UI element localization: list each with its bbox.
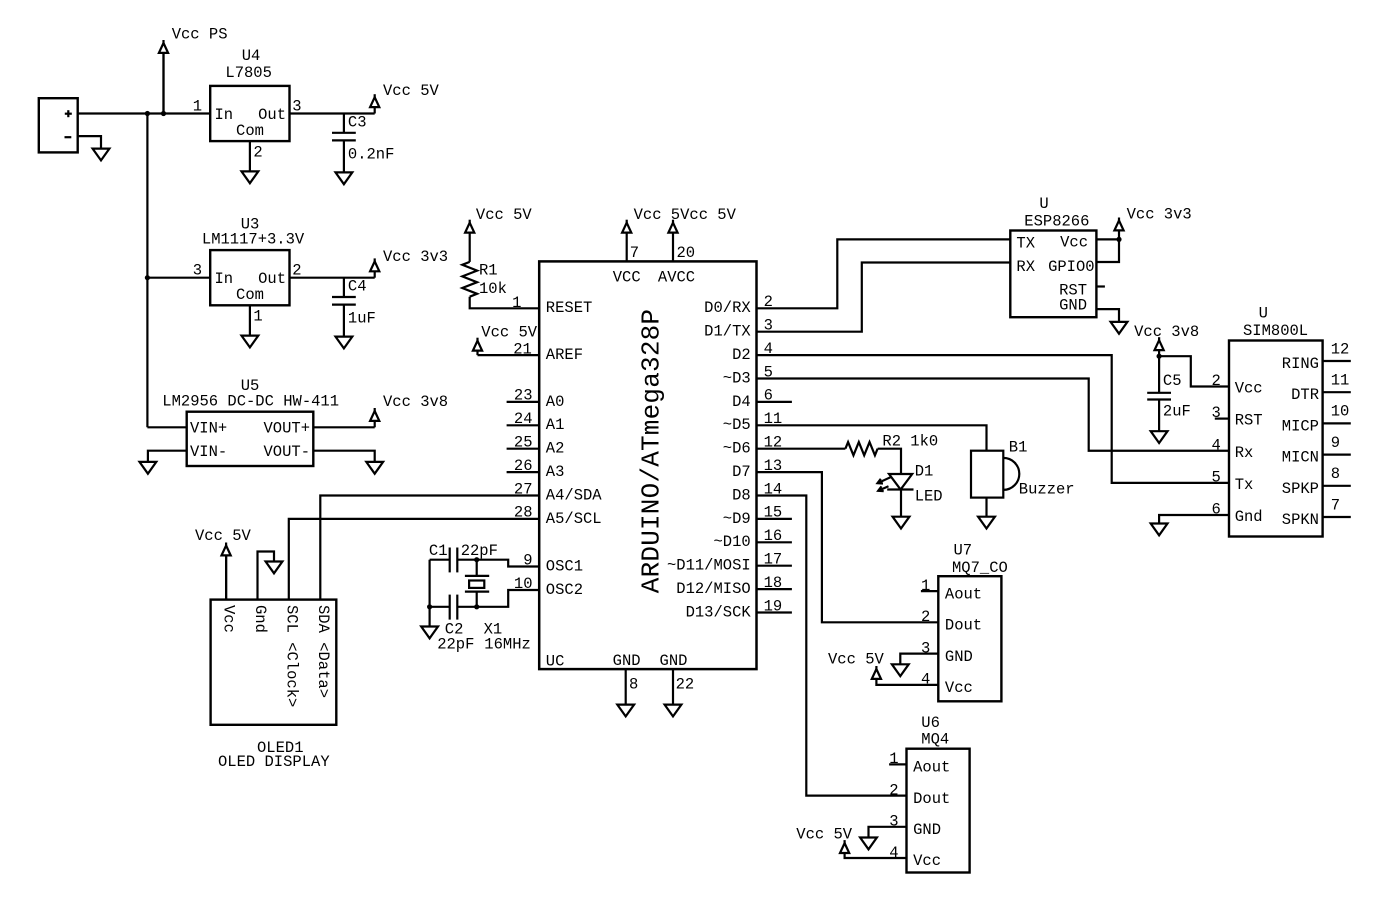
svg-text:A1: A1	[546, 416, 565, 434]
svg-text:GND: GND	[660, 652, 688, 670]
capacitor C4	[332, 278, 356, 337]
label U SIM800L	[1243, 305, 1308, 341]
capacitor C5	[1147, 356, 1171, 431]
svg-text:OSC1: OSC1	[546, 557, 583, 575]
dc-dc converter U5 box	[187, 412, 314, 466]
U6 Aout stub	[889, 763, 906, 765]
svg-text:In: In	[215, 270, 234, 288]
label C5 2uF	[1163, 372, 1191, 420]
svg-text:U: U	[1039, 195, 1048, 213]
svg-text:LM1117+3.3V: LM1117+3.3V	[202, 231, 305, 249]
wire D2 to SIM800L Tx	[757, 355, 1230, 483]
ground C3	[336, 172, 353, 184]
pin numbers 7 20	[630, 244, 695, 262]
svg-text:Vcc 5V: Vcc 5V	[476, 206, 533, 224]
ground U5 VOUT-	[366, 462, 383, 474]
U6 pin numbers	[889, 750, 898, 862]
crystal X1	[465, 560, 489, 607]
svg-text:MQ7_CO: MQ7_CO	[952, 559, 1008, 577]
wire crystal left rail	[429, 560, 431, 627]
gas sensor U6 box	[907, 749, 970, 873]
label Vcc 5V OLED	[195, 527, 252, 545]
label D1 LED	[915, 462, 943, 505]
label C4 1uF	[348, 278, 376, 328]
svg-text:Com: Com	[236, 286, 264, 304]
svg-text:~D11/MOSI: ~D11/MOSI	[667, 557, 751, 575]
svg-text:Vcc PS: Vcc PS	[172, 25, 228, 43]
wire U6 Vcc + Vcc symbol	[840, 840, 907, 858]
svg-text:U: U	[1259, 305, 1268, 323]
wire OLED SCL to A5/SCL	[289, 519, 539, 600]
svg-text:VIN-: VIN-	[190, 443, 227, 461]
label X1 16MHz	[484, 620, 531, 653]
capacitor C2	[430, 595, 477, 620]
ESP RST stub	[1096, 285, 1105, 287]
svg-text:Vcc 5V: Vcc 5V	[383, 82, 440, 100]
svg-text:Buzzer: Buzzer	[1019, 480, 1075, 498]
gas sensor U7 box	[938, 576, 1001, 701]
svg-text:D7: D7	[732, 463, 751, 481]
ground pin 22	[665, 705, 682, 717]
svg-text:Aout: Aout	[913, 759, 950, 777]
svg-text:D13/SCK: D13/SCK	[686, 603, 752, 621]
svg-text:SPKP: SPKP	[1282, 480, 1319, 498]
U7 pin names	[945, 585, 982, 697]
svg-text:0.2nF: 0.2nF	[348, 145, 395, 163]
label C2 22pF	[437, 620, 474, 653]
svg-text:SIM800L: SIM800L	[1243, 322, 1308, 340]
wire U5 VIN- to ground	[148, 451, 187, 462]
label U7 MQ7_CO	[952, 541, 1008, 577]
wire U7 Vcc + Vcc symbol	[872, 666, 939, 685]
battery polarity marks	[65, 110, 72, 137]
svg-text:Vcc 3v8: Vcc 3v8	[383, 393, 448, 411]
wire OLED SDA to A4/SDA	[320, 496, 539, 600]
OLED display box	[211, 600, 337, 725]
node crystal junctions	[427, 557, 479, 609]
svg-text:AREF: AREF	[546, 346, 583, 364]
svg-text:VOUT+: VOUT+	[263, 420, 310, 438]
svg-text:21: 21	[513, 340, 532, 358]
battery power source	[39, 98, 78, 152]
svg-text:Dout: Dout	[945, 617, 982, 635]
wire ~D3 to SIM800L Rx	[757, 379, 1230, 451]
SIM800L right stubs	[1323, 361, 1351, 517]
svg-text:U7: U7	[954, 541, 973, 559]
svg-text:TX: TX	[1016, 235, 1035, 253]
svg-text:R1: R1	[479, 262, 498, 280]
wire SIM800L Vcc net + node	[1157, 354, 1230, 387]
svg-text:7: 7	[1331, 496, 1340, 514]
ground U6	[860, 838, 877, 850]
svg-text:Dout: Dout	[913, 790, 950, 808]
label R2 1k0	[882, 432, 938, 450]
U4 pin numbers	[193, 98, 302, 162]
wifi module U ESP8266 box	[1010, 231, 1096, 318]
SIM800L left pin names	[1235, 380, 1263, 527]
svg-text:RX: RX	[1016, 258, 1035, 276]
svg-text:Vcc 5V: Vcc 5V	[481, 324, 538, 342]
label U ESP8266	[1024, 195, 1089, 230]
wire GND pin 8	[625, 669, 627, 705]
label Vcc 3v8 SIM	[1134, 323, 1199, 341]
wire U4 Out / Vcc 5V net	[290, 112, 375, 114]
svg-text:RESET: RESET	[546, 299, 593, 317]
Vcc 5V symbol and wire to AREF	[473, 338, 539, 355]
U4 pin names	[215, 106, 287, 140]
wire main input vertical	[146, 114, 148, 428]
ATmega left pin numbers	[514, 387, 533, 593]
U7 pin numbers	[921, 577, 930, 689]
svg-text:8: 8	[629, 675, 638, 693]
svg-text:L7805: L7805	[225, 64, 272, 82]
svg-text:C4: C4	[348, 278, 367, 296]
wire U3 Com to ground	[249, 305, 251, 335]
svg-text:1: 1	[921, 577, 930, 595]
svg-text:DTR: DTR	[1291, 386, 1319, 404]
svg-text:SDA <Data>: SDA <Data>	[314, 605, 332, 698]
U5 pin names	[190, 420, 310, 461]
U7 Aout stub	[921, 590, 938, 592]
svg-text:B1: B1	[1009, 438, 1028, 456]
svg-text:UC: UC	[546, 652, 565, 670]
svg-text:Vcc: Vcc	[1060, 234, 1088, 252]
label Vcc 3v8	[383, 393, 448, 411]
svg-text:MICP: MICP	[1282, 417, 1319, 435]
wire crystal to OSC1	[477, 560, 540, 567]
svg-text:D4: D4	[732, 393, 751, 411]
Vcc 3v3 symbol	[370, 258, 379, 277]
wire ESP GND	[1096, 309, 1119, 322]
ground LED	[893, 517, 910, 529]
svg-text:Com: Com	[236, 122, 264, 140]
svg-text:9: 9	[1331, 434, 1340, 452]
svg-text:D2: D2	[732, 346, 751, 364]
Vcc 3v3 symbol at ESP	[1114, 218, 1123, 240]
svg-text:Vcc 3v3: Vcc 3v3	[383, 248, 448, 266]
Vcc 5V symbol at OLED	[222, 543, 231, 600]
wire SIM800L Gnd	[1159, 515, 1229, 524]
wire ESP Vcc + node	[1096, 237, 1121, 242]
regulator U3 box	[210, 250, 289, 305]
U3 pin names	[215, 270, 287, 304]
wire D1/TX to ESP RX	[757, 263, 1011, 332]
ground SIM800L Gnd	[1151, 524, 1168, 536]
Vcc PS symbol	[159, 40, 168, 114]
ground U5 VIN-	[140, 462, 157, 474]
svg-text:VOUT-: VOUT-	[263, 443, 310, 461]
svg-text:1: 1	[253, 308, 262, 326]
wire U4 Com to ground	[249, 141, 251, 171]
svg-text:LED: LED	[915, 487, 943, 505]
svg-text:GND: GND	[613, 652, 641, 670]
svg-text:C5: C5	[1163, 372, 1182, 390]
wire battery- to ground	[78, 136, 101, 149]
OLED pin names (rotated)	[220, 605, 332, 707]
ground ESP GND	[1111, 322, 1128, 334]
svg-text:D8: D8	[732, 486, 751, 504]
svg-text:12: 12	[1331, 340, 1350, 358]
svg-text:U6: U6	[921, 714, 940, 732]
label Vcc 5V	[383, 82, 440, 100]
SIM800L right pin names	[1282, 355, 1319, 529]
label B1 Buzzer	[1009, 438, 1075, 498]
svg-text:Vcc: Vcc	[945, 679, 973, 697]
svg-text:ESP8266: ESP8266	[1024, 212, 1089, 230]
svg-text:OSC2: OSC2	[546, 581, 583, 599]
ATmega VCC AVCC GND names	[613, 269, 695, 670]
svg-text:MQ4: MQ4	[921, 730, 949, 748]
svg-text:Vcc 5V: Vcc 5V	[796, 826, 853, 844]
svg-text:VIN+: VIN+	[190, 420, 227, 438]
svg-text:22pF: 22pF	[461, 542, 498, 560]
ground battery-	[93, 149, 110, 161]
ground U3 Com	[242, 336, 259, 348]
svg-text:Vcc 5Vcc 5V: Vcc 5Vcc 5V	[634, 206, 737, 224]
Vcc 5V symbol pin 7 VCC	[622, 220, 631, 262]
svg-text:1: 1	[193, 98, 202, 116]
wire ESP GPIO0 to Vcc	[1096, 239, 1119, 262]
svg-text:SPKN: SPKN	[1282, 511, 1319, 529]
Vcc 5V symbol at U4 out	[370, 94, 379, 113]
wire battery+ to U4 In	[78, 112, 211, 114]
svg-text:Vcc 5V: Vcc 5V	[828, 651, 885, 669]
svg-text:2: 2	[253, 143, 262, 161]
ground U4 Com	[242, 171, 259, 183]
ground crystal rail	[421, 627, 438, 639]
svg-text:A2: A2	[546, 440, 565, 458]
U6 pin names	[913, 759, 950, 871]
svg-text:Tx: Tx	[1235, 476, 1254, 494]
label U3 LM1117+3.3V	[202, 216, 305, 249]
regulator U4 box	[210, 86, 289, 141]
label Vcc 5V R1	[476, 206, 533, 224]
Vcc 5V symbol pin 20 AVCC	[668, 220, 677, 262]
label Vcc 5V U6	[796, 826, 853, 844]
ground OLED Gnd	[266, 562, 283, 574]
Vcc 3v8 symbol at SIM800L	[1155, 337, 1164, 356]
svg-text:22: 22	[676, 675, 695, 693]
pin numbers 8 22	[629, 675, 694, 693]
ESP8266 left pin names	[1016, 235, 1035, 277]
pin number 1 RESET	[512, 294, 521, 312]
svg-text:GPIO0: GPIO0	[1048, 258, 1095, 276]
MCU U ARDUINO/ATmega328P box	[539, 261, 756, 669]
pin number 21 AREF	[513, 340, 532, 358]
wire U5 VOUT- to ground	[313, 451, 374, 462]
U3 pin numbers	[193, 262, 302, 326]
svg-text:Vcc 5V: Vcc 5V	[195, 527, 252, 545]
wire LED to ground	[900, 490, 902, 517]
node junction battery+ / PS	[145, 111, 166, 116]
wire to U5 VIN+	[147, 426, 186, 428]
svg-text:SCL <Clock>: SCL <Clock>	[282, 605, 300, 707]
SIM800L left pin numbers	[1212, 372, 1221, 518]
wire D0/RX to ESP TX	[757, 239, 1011, 308]
svg-text:Aout: Aout	[945, 585, 982, 603]
svg-text:10k: 10k	[479, 280, 507, 298]
svg-text:Vcc: Vcc	[220, 605, 238, 633]
ground U7	[892, 664, 909, 676]
SIM800L RST stub	[1215, 418, 1229, 420]
svg-text:VCC: VCC	[613, 269, 641, 287]
svg-text:2uF: 2uF	[1163, 402, 1191, 420]
wire U7 GND	[900, 654, 938, 665]
label R1 10k	[479, 262, 507, 299]
svg-text:8: 8	[1331, 465, 1340, 483]
labels Vcc 5V Vcc 5V overlapping	[634, 206, 737, 224]
svg-text:D12/MISO: D12/MISO	[676, 580, 750, 598]
label Vcc 3v3 ESP	[1127, 205, 1192, 223]
svg-text:22pF: 22pF	[437, 636, 474, 654]
svg-text:C3: C3	[348, 113, 367, 131]
svg-text:20: 20	[677, 244, 696, 262]
wire D7 to U7 Dout	[757, 472, 939, 622]
Vcc 3v8 symbol at U5	[370, 408, 379, 427]
svg-text:Gnd: Gnd	[251, 605, 269, 633]
resistor R1	[462, 262, 477, 297]
label C3 0.2nF	[348, 113, 395, 163]
wire GND pin 22	[672, 669, 674, 705]
svg-text:D0/RX: D0/RX	[704, 299, 751, 317]
ATmega A0-A3 stubs	[507, 402, 540, 472]
svg-text:2: 2	[889, 781, 898, 799]
label U6 MQ4	[921, 714, 949, 748]
label C1 22pF	[429, 542, 498, 560]
ground buzzer	[978, 517, 995, 529]
resistor R2	[845, 442, 877, 455]
ground pin 8	[617, 705, 634, 717]
svg-text:ARDUINO/ATmega328P: ARDUINO/ATmega328P	[637, 309, 667, 593]
label Vcc 5V U7	[828, 651, 885, 669]
node junction U3 In tap	[145, 275, 210, 280]
svg-text:3: 3	[921, 639, 930, 657]
svg-text:A4/SDA: A4/SDA	[546, 486, 603, 504]
svg-text:D1/TX: D1/TX	[704, 323, 751, 341]
svg-text:A3: A3	[546, 463, 565, 481]
capacitor C1	[430, 548, 477, 573]
svg-text:1: 1	[512, 294, 521, 312]
ground C5	[1151, 431, 1168, 443]
wire U6 GND	[869, 827, 907, 838]
Vcc 5V symbol at R1	[465, 220, 474, 262]
label ARDUINO/ATmega328P	[637, 309, 667, 593]
label Vcc 5V AREF	[481, 324, 538, 342]
ATmega right pin numbers	[764, 293, 783, 615]
svg-text:~D10: ~D10	[713, 533, 750, 551]
svg-text:Vcc: Vcc	[1235, 380, 1263, 398]
ATmega left pin names	[546, 299, 603, 670]
wire R1 to RESET	[470, 297, 540, 309]
svg-text:GND: GND	[1059, 297, 1087, 315]
svg-text:C1: C1	[429, 542, 448, 560]
svg-text:OLED DISPLAY: OLED DISPLAY	[218, 753, 330, 771]
svg-text:RST: RST	[1235, 412, 1263, 430]
svg-text:27: 27	[514, 480, 533, 498]
svg-text:A5/SCL: A5/SCL	[546, 510, 602, 528]
ATmega right pin names	[667, 299, 751, 621]
svg-text:Vcc: Vcc	[913, 852, 941, 870]
ATmega unconnected right stubs	[757, 402, 792, 613]
svg-text:11: 11	[1331, 372, 1350, 390]
svg-text:Rx: Rx	[1235, 444, 1254, 462]
wire ~D6 to R2	[757, 448, 846, 450]
buzzer B1	[971, 451, 1019, 498]
svg-text:U4: U4	[242, 47, 261, 65]
svg-text:AVCC: AVCC	[658, 269, 695, 287]
wire U5 VOUT+ / Vcc 3v8 net	[313, 426, 374, 428]
svg-text:Vcc 3v3: Vcc 3v3	[1127, 205, 1192, 223]
ESP8266 right pin names	[1048, 234, 1095, 315]
wire ~D5 to buzzer	[757, 425, 987, 450]
SIM800L right pin numbers	[1331, 340, 1350, 514]
svg-text:~D3: ~D3	[723, 369, 751, 387]
svg-text:D1: D1	[915, 462, 934, 480]
capacitor C3	[332, 114, 356, 173]
svg-text:A0: A0	[546, 393, 565, 411]
wire D8 to U6 Dout	[757, 496, 907, 796]
svg-text:RING: RING	[1282, 355, 1319, 373]
label U4 L7805	[225, 47, 272, 82]
svg-text:LM2956 DC-DC HW-411: LM2956 DC-DC HW-411	[162, 393, 339, 411]
svg-text:~D9: ~D9	[723, 510, 751, 528]
svg-text:10: 10	[1331, 403, 1350, 421]
ground C4	[336, 337, 353, 349]
wire OLED Gnd	[258, 552, 275, 600]
svg-text:Gnd: Gnd	[1235, 508, 1263, 526]
wire buzzer to ground	[985, 498, 987, 517]
svg-text:1uF: 1uF	[348, 310, 376, 328]
label Vcc 3v3	[383, 248, 448, 266]
gsm module U SIM800L box	[1229, 341, 1323, 537]
svg-text:MICN: MICN	[1282, 449, 1319, 467]
svg-text:In: In	[215, 106, 234, 124]
svg-text:GND: GND	[945, 648, 973, 666]
wire crystal to OSC2	[477, 590, 540, 607]
label U5 LM2956 DC-DC HW-411	[162, 377, 339, 411]
label Vcc PS	[172, 25, 228, 43]
svg-text:16MHz: 16MHz	[484, 636, 531, 654]
svg-text:~D6: ~D6	[723, 440, 751, 458]
LED D1	[878, 474, 914, 491]
wire R2 to LED	[878, 449, 901, 475]
svg-text:~D5: ~D5	[723, 416, 751, 434]
label OLED1 OLED DISPLAY	[218, 739, 330, 771]
svg-text:7: 7	[630, 244, 639, 262]
svg-text:GND: GND	[913, 821, 941, 839]
svg-text:Vcc 3v8: Vcc 3v8	[1134, 323, 1199, 341]
svg-text:28: 28	[514, 504, 533, 522]
wire U3 Out / Vcc 3v3 net	[290, 277, 375, 279]
